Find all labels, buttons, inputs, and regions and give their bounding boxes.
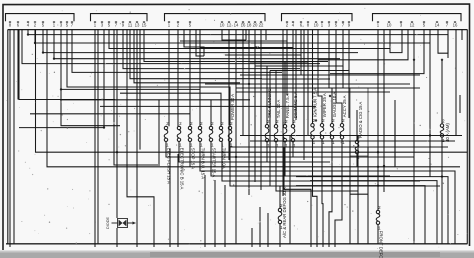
wire [43, 30, 358, 53]
wire [251, 228, 253, 247]
wire [180, 30, 287, 42]
wire [270, 30, 349, 71]
wire [307, 62, 309, 136]
svg-text:11: 11 [128, 22, 133, 27]
wire [30, 113, 190, 115]
fuse F8 TAIL 10A [274, 100, 281, 148]
diode D1 [106, 217, 136, 229]
svg-text:STARTER 15 A: STARTER 15 A [212, 148, 217, 178]
svg-text:PANEL 7.5 A: PANEL 7.5 A [285, 93, 290, 118]
wire [158, 100, 160, 164]
svg-text:DIMMING 5 A: DIMMING 5 A [293, 92, 298, 119]
wire [318, 30, 408, 60]
wire [19, 30, 104, 128]
wire [260, 30, 262, 191]
wire [189, 30, 191, 127]
wire [100, 105, 316, 107]
wire [236, 87, 420, 89]
wire [390, 30, 402, 53]
wire [177, 154, 179, 247]
connector C220 [282, 14, 353, 28]
wire [348, 71, 350, 119]
wire [139, 30, 141, 150]
wire [296, 186, 425, 244]
svg-text:40 A (AM): 40 A (AM) [445, 123, 450, 142]
wire [284, 148, 311, 248]
wire [61, 30, 200, 90]
fuse F1 ELEC FLASH 15A [164, 121, 171, 184]
wire [265, 30, 267, 41]
svg-text:12: 12 [410, 22, 415, 27]
wire [94, 30, 96, 248]
wire [230, 142, 440, 187]
connector C100 [6, 14, 75, 28]
wire [383, 30, 385, 193]
wire [429, 30, 431, 177]
wire [255, 46, 259, 48]
wire [168, 30, 170, 127]
fuse F13 ACCY 25A [340, 95, 347, 145]
wire [116, 30, 118, 219]
wire [275, 71, 277, 125]
wire [330, 30, 424, 74]
wire [214, 180, 216, 247]
wire [116, 228, 118, 247]
wire [97, 30, 99, 244]
wire [318, 30, 322, 124]
fuse F5 STARTER 15A [209, 121, 216, 178]
border frame inner left [7, 30, 9, 244]
fuse F7 TRK RUNNING [265, 88, 272, 148]
wire [225, 30, 301, 56]
wire [254, 110, 256, 182]
wire [109, 30, 390, 49]
svg-text:GAUGE 10 A: GAUGE 10 A [332, 92, 337, 117]
wire [279, 186, 281, 208]
svg-text:15: 15 [142, 22, 147, 27]
wire [269, 71, 271, 187]
wire [438, 30, 448, 54]
wire [166, 142, 414, 158]
svg-text:20: 20 [253, 22, 258, 27]
wire [22, 30, 320, 64]
wire [28, 30, 448, 59]
wire [367, 147, 369, 244]
wire [300, 55, 302, 75]
wire [266, 66, 268, 125]
svg-text:18: 18 [247, 22, 252, 27]
wire [114, 30, 160, 166]
wire [230, 146, 448, 148]
fuse F15 FRONT DEFOG 35A [376, 205, 383, 258]
fuse F12 GAUGE 10A [330, 92, 337, 145]
wire [184, 30, 204, 57]
wire [284, 142, 286, 176]
wire [377, 167, 379, 210]
svg-text:ELECTRONIC B 15 A: ELECTRONIC B 15 A [180, 148, 185, 190]
wire [394, 120, 396, 166]
label RADIO CIG 15A [358, 102, 363, 138]
svg-text:A/C & REAR DEFOG 30 A: A/C & REAR DEFOG 30 A [282, 187, 287, 238]
svg-text:10: 10 [220, 22, 225, 27]
wire [349, 141, 351, 244]
svg-text:14: 14 [234, 22, 239, 27]
wire [130, 30, 262, 79]
wire [134, 30, 240, 83]
wire [292, 48, 294, 125]
wire [189, 142, 191, 167]
wire [255, 30, 343, 67]
wire [179, 142, 330, 163]
wire [313, 139, 318, 247]
fuse F9b DIMMING 5A [291, 92, 298, 148]
svg-text:TAIL 10 A: TAIL 10 A [276, 100, 281, 119]
node radio box [350, 88, 368, 156]
wire [342, 66, 344, 88]
wire [222, 142, 420, 182]
svg-text:10: 10 [314, 22, 319, 27]
svg-text:13: 13 [135, 22, 140, 27]
svg-text:TURN B.U. 15 A: TURN B.U. 15 A [201, 148, 206, 179]
label A/C REAR DEFOG 30A [282, 187, 287, 238]
wire [459, 95, 461, 113]
wire [322, 139, 323, 247]
wire [199, 30, 201, 127]
border frame inner bottom [6, 243, 468, 245]
wire [266, 142, 268, 162]
wire [136, 30, 138, 248]
fuse F13b RADIO CIG 15A [355, 135, 360, 160]
fuse F14 40A AM [440, 118, 445, 143]
wire [329, 30, 332, 124]
wire [242, 30, 244, 136]
fuse F6 POWER 30A [228, 94, 235, 148]
svg-text:16: 16 [241, 22, 246, 27]
wire [13, 30, 15, 244]
wire [259, 207, 261, 247]
wire [441, 60, 443, 124]
svg-text:10: 10 [387, 22, 392, 27]
connector C230 [373, 14, 462, 28]
wire [356, 110, 358, 140]
wire [335, 139, 342, 247]
wire [276, 142, 358, 191]
wire [267, 213, 269, 247]
wire [248, 30, 250, 196]
wire [279, 224, 281, 247]
wire [286, 41, 288, 95]
wire [296, 177, 448, 244]
wire [377, 225, 379, 244]
wire [204, 175, 206, 247]
wire [222, 30, 246, 41]
wire [228, 30, 230, 161]
wire [289, 136, 291, 244]
svg-text:ACCY 25 A: ACCY 25 A [342, 95, 347, 117]
wire [72, 30, 282, 73]
wire [224, 185, 226, 247]
node top bus [8, 29, 468, 31]
fuse F3 STOP 15A [188, 121, 195, 169]
wire [200, 142, 455, 244]
wire [211, 142, 390, 177]
wire [235, 30, 237, 244]
scan band [0, 251, 474, 258]
fuse F10 IGN RUN 7.5A [311, 88, 318, 145]
wire [245, 30, 247, 41]
wire [236, 91, 390, 93]
wire [254, 30, 256, 111]
wire [350, 193, 368, 195]
wire [210, 100, 212, 127]
wire [284, 62, 286, 125]
wire [441, 137, 443, 244]
wire [357, 136, 359, 244]
fuse F11 WIPER 25A [320, 93, 327, 145]
wire [205, 83, 410, 85]
svg-text:14: 14 [435, 22, 440, 27]
wire [295, 30, 297, 121]
wire [17, 30, 19, 100]
svg-text:POWER 30 A: POWER 30 A [230, 94, 235, 120]
wire [461, 30, 463, 41]
svg-text:ELEC FLASH 15 A: ELEC FLASH 15 A [167, 148, 172, 184]
wire [303, 30, 305, 161]
wire [310, 181, 437, 244]
wire [120, 93, 221, 126]
wire [123, 30, 300, 69]
connector C210 [165, 14, 266, 28]
svg-text:WIPER 25 A: WIPER 25 A [322, 93, 327, 117]
wire [336, 30, 342, 124]
svg-text:TURN 10A: TURN 10A [222, 148, 227, 169]
connector C200 [91, 14, 148, 28]
wire [36, 30, 468, 153]
svg-text:DIODE: DIODE [106, 217, 110, 229]
wire [60, 99, 250, 101]
wire [177, 30, 179, 127]
wire [19, 30, 115, 100]
svg-text:16: 16 [453, 22, 458, 27]
wire [356, 154, 358, 167]
label 40A AM [445, 123, 450, 142]
wire [394, 100, 396, 167]
fuse F16 REAR DEFOG 30A [278, 203, 283, 230]
wire [54, 30, 340, 59]
wire [9, 30, 11, 248]
wire [169, 149, 171, 247]
wire [312, 30, 314, 124]
fuse F2 ELECTRONIC B 15A [177, 121, 184, 190]
svg-text:RADIO & CIG 15 A: RADIO & CIG 15 A [358, 102, 363, 138]
fuse F4 TURN BU 15A [198, 121, 205, 179]
wire [200, 30, 293, 48]
wire [413, 30, 415, 244]
fuse F9 PANEL 7.5A [283, 93, 290, 148]
wire [250, 30, 308, 63]
svg-text:12: 12 [227, 22, 232, 27]
wire [250, 140, 455, 142]
wire [196, 30, 204, 57]
wire [127, 30, 129, 197]
wire [262, 78, 330, 80]
border frame inner right [466, 30, 468, 244]
svg-text:FRONT DEFOG 35 A: FRONT DEFOG 35 A [379, 231, 384, 258]
wire [282, 30, 284, 197]
wire [35, 30, 430, 44]
svg-text:TRK RUNNING: TRK RUNNING [267, 88, 272, 118]
svg-text:IGN/RUN 7.5 A: IGN/RUN 7.5 A [313, 88, 318, 117]
wire [240, 74, 420, 76]
wire [129, 197, 154, 247]
wire [61, 89, 120, 125]
svg-text:STOP 15 A: STOP 15 A [191, 148, 196, 169]
svg-text:22: 22 [259, 22, 264, 27]
wire [144, 30, 328, 62]
wire [67, 30, 230, 127]
wire [240, 135, 462, 137]
wire [47, 30, 460, 167]
wire [292, 142, 294, 157]
fuse F5b TURN 10A [219, 121, 226, 169]
wire [377, 30, 379, 167]
wire [329, 139, 332, 247]
wire [455, 30, 457, 136]
